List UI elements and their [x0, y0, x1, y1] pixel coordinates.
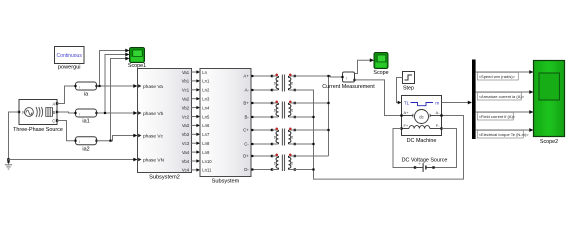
current measurement ia [74, 82, 97, 98]
signal label <Armature current ia (A)> [477, 92, 521, 100]
wire plus rail (tops of secondaries) [328, 76, 330, 156]
wire Va3 to Ln6 [192, 124, 199, 126]
svg-text:N: N [22, 110, 25, 115]
svg-text:Ln: Ln [202, 70, 207, 75]
svg-text:Ln2: Ln2 [202, 88, 210, 93]
svg-text:2: 2 [291, 109, 293, 113]
wire Vb4 to Ln10 [192, 160, 199, 162]
svg-text:Continuous: Continuous [57, 53, 83, 59]
svg-text:<Electrical torque Te (N-m)>: <Electrical torque Te (N-m)> [479, 132, 530, 137]
svg-text:F+: F+ [404, 123, 409, 128]
svg-text:Vb1: Vb1 [182, 79, 190, 84]
svg-text:B+: B+ [243, 101, 249, 106]
svg-text:Vb2: Vb2 [182, 105, 190, 110]
svg-text:A-: A- [245, 88, 250, 93]
svg-text:phase Va: phase Va [143, 84, 163, 90]
powergui block [55, 47, 85, 71]
svg-text:Ln1: Ln1 [202, 79, 210, 84]
transformer Tr2 [271, 101, 296, 119]
node ground junction [7, 158, 10, 161]
svg-text:ia: ia [84, 92, 88, 98]
wire C- to transformer [251, 143, 272, 145]
svg-text:C-: C- [244, 142, 249, 147]
wire Vc4 to Ln11 [192, 169, 199, 171]
svg-text:A: A [53, 101, 56, 106]
svg-text:Va2: Va2 [182, 97, 190, 102]
svg-text:ia1: ia1 [82, 119, 89, 125]
wire Vb1 to Ln1 [192, 80, 199, 82]
wire B+ to transformer [251, 102, 272, 104]
svg-text:Ln5: Ln5 [202, 114, 210, 119]
wire ia2 to phase Vc [97, 136, 136, 141]
wire source N to ground junction [9, 112, 20, 160]
svg-text:Ln3: Ln3 [202, 97, 210, 102]
wire A- to transformer [251, 89, 272, 91]
svg-text:C+: C+ [243, 128, 249, 133]
current measurement Current Measurement [322, 72, 375, 90]
svg-text:2: 2 [291, 161, 293, 165]
wire Vc3 to Ln8 [192, 142, 199, 144]
signal label <Electrical torque Te (N-m)> [477, 130, 523, 138]
transformer Tr3 [271, 128, 296, 146]
svg-text:Scope2: Scope2 [540, 139, 558, 145]
DC Machine block [400, 96, 442, 145]
svg-text:Vc1: Vc1 [182, 88, 190, 93]
svg-text:phase VN: phase VN [143, 157, 165, 163]
svg-text:Vc4: Vc4 [182, 168, 190, 173]
svg-text:Scope: Scope [373, 70, 388, 76]
svg-text:Vc3: Vc3 [182, 141, 190, 146]
node minus rail junctions [312, 116, 314, 118]
wire D- to transformer [251, 169, 272, 171]
svg-text:dc: dc [419, 114, 423, 119]
svg-text:<Field current if (A)>: <Field current if (A)> [479, 114, 516, 119]
transformer Tr1 [271, 74, 296, 92]
svg-text:Va4: Va4 [182, 150, 190, 155]
svg-text:DC Machine: DC Machine [407, 138, 437, 144]
wire D+ to transformer [251, 155, 272, 157]
wire Current Measurement to DC machine A+ [355, 80, 402, 116]
svg-text:Ln8: Ln8 [202, 141, 210, 146]
svg-text:1: 1 [274, 82, 276, 86]
svg-text:ia2: ia2 [82, 146, 89, 152]
wire Vb3 to Ln7 [192, 133, 199, 135]
wire ia2 i-branch to Scope1 [111, 59, 128, 141]
wire Vc2 to Ln5 [192, 116, 199, 118]
Three-Phase Source block [13, 100, 63, 134]
current measurement ia1 [74, 109, 97, 125]
svg-text:Current Measurement: Current Measurement [322, 84, 375, 90]
svg-text:Vc2: Vc2 [182, 114, 190, 119]
svg-text:i: i [346, 75, 347, 80]
signal label <Field current if (A)> [477, 112, 513, 120]
svg-text:<Armature current ia (A)>: <Armature current ia (A)> [479, 94, 525, 99]
svg-text:Va1: Va1 [182, 70, 190, 75]
wire DC machine m to bus selector [442, 102, 471, 104]
step block Step [403, 72, 415, 92]
svg-text:C: C [52, 118, 55, 123]
wire C+ to transformer [251, 129, 272, 131]
svg-text:Vb4: Vb4 [182, 159, 190, 164]
svg-text:TL: TL [404, 101, 410, 106]
svg-text:Ln4: Ln4 [202, 105, 210, 110]
wire Va2 to Ln3 [192, 98, 199, 100]
wire Vb2 to Ln4 [192, 107, 199, 109]
svg-text:<Speed wm (rad/s)>: <Speed wm (rad/s)> [479, 74, 516, 79]
subsystem Subsystem [200, 69, 251, 185]
svg-text:B: B [53, 110, 56, 115]
svg-text:Step: Step [403, 85, 414, 91]
current measurement ia2 [74, 137, 97, 153]
scope Scope1 [128, 48, 146, 70]
svg-text:1: 1 [274, 161, 276, 165]
svg-text:Subsystem2: Subsystem2 [149, 175, 180, 181]
svg-text:Subsystem: Subsystem [212, 179, 240, 185]
node plus rail junctions [327, 75, 329, 77]
wire source B to ia1 [57, 112, 76, 113]
svg-text:D+: D+ [243, 154, 249, 159]
wire F+ to battery [393, 129, 415, 168]
signal label <Speed wm (rad/s)> [477, 72, 518, 80]
svg-text:D-: D- [244, 167, 249, 172]
svg-text:DC Voltage Source: DC Voltage Source [402, 158, 448, 164]
wire ia1 i-branch to Scope1 [105, 55, 128, 114]
scope Scope2 [534, 61, 565, 146]
svg-text:2: 2 [291, 136, 293, 140]
svg-text:2: 2 [291, 82, 293, 86]
svg-text:Ln10: Ln10 [202, 159, 212, 164]
svg-text:Three-Phase Source: Three-Phase Source [13, 127, 63, 133]
wire top rail Tr1 to Current Measurement [295, 76, 343, 77]
svg-text:Ln9: Ln9 [202, 150, 210, 155]
wire Va1 to Ln [192, 71, 199, 73]
wire bus signal <Speed wm (rad/s)> to Scope2 [476, 71, 532, 73]
wire bus signal <Field current if (A)> to Scope2 [476, 111, 532, 113]
wire source A to ia [57, 86, 76, 104]
svg-text:powergui: powergui [58, 65, 81, 71]
wire ia1 to phase Vb [97, 112, 136, 114]
transformer Tr4 [271, 154, 296, 171]
svg-text:Ln7: Ln7 [202, 132, 210, 137]
svg-text:B-: B- [245, 115, 250, 120]
wire Va4 to Ln9 [192, 151, 199, 153]
subsystem Subsystem2 [138, 69, 192, 181]
svg-text:Ln11: Ln11 [202, 168, 212, 173]
wire bus signal <Armature current ia (A)> to Scope2 [476, 91, 532, 93]
wire A+ to transformer [251, 75, 272, 77]
svg-text:phase Vb: phase Vb [143, 111, 164, 117]
wire Step to DC machine TL [397, 78, 403, 103]
wire Current Measurement i to Scope [355, 60, 373, 73]
wire minus rail (bottoms of secondaries) to A- [295, 90, 464, 179]
wire source C to ia2 [57, 121, 76, 141]
svg-text:Ln6: Ln6 [202, 123, 210, 128]
svg-text:phase Vc: phase Vc [143, 133, 164, 139]
DC Voltage Source [402, 158, 448, 172]
svg-text:A+: A+ [404, 110, 410, 115]
svg-text:Va3: Va3 [182, 123, 190, 128]
svg-text:Vb3: Vb3 [182, 132, 190, 137]
wire Vc1 to Ln2 [192, 89, 199, 91]
wire ia to phase Va [97, 85, 136, 87]
scope Scope [373, 53, 388, 76]
wire B- to transformer [251, 116, 272, 118]
svg-text:A+: A+ [243, 74, 249, 79]
svg-text:m: m [435, 101, 439, 106]
bus selector [472, 60, 476, 140]
wire ia i-branch to Scope1 [100, 51, 128, 87]
svg-text:1: 1 [274, 136, 276, 140]
ground [5, 160, 12, 170]
wire F- to battery [434, 129, 457, 168]
wire bus signal <Electrical torque Te (N-m)> to Scope2 [476, 129, 532, 131]
svg-text:1: 1 [274, 109, 276, 113]
wire neutral to phase VN [9, 159, 136, 161]
